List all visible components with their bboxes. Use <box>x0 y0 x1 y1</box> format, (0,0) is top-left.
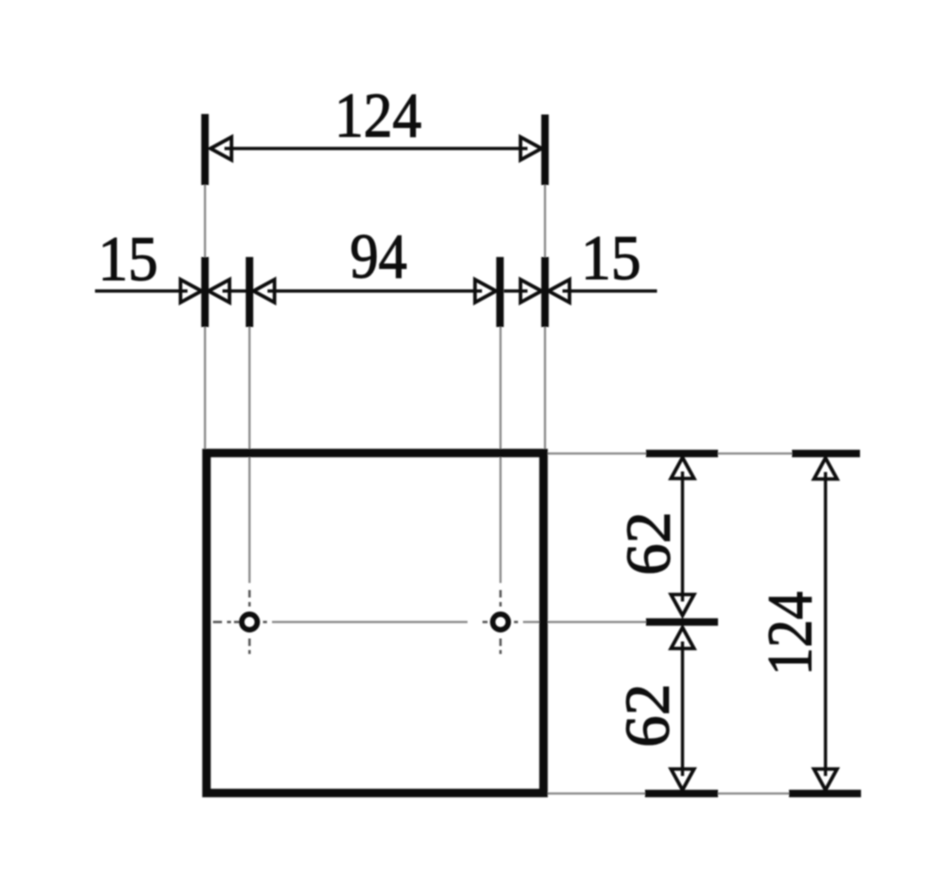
centerline right hole vertical dash below <box>499 639 501 647</box>
centerline right hole vertical dot below <box>499 650 501 654</box>
plate outline square <box>207 453 544 793</box>
dim 124 right: arrowhead up <box>814 458 837 479</box>
centerline left hole vertical dot <box>248 602 250 607</box>
dim 124 right: shaft <box>824 472 827 776</box>
extension line right edge (x=545) lower <box>544 327 546 449</box>
dim 124 top: arrowhead left <box>211 137 232 160</box>
dim 94: arrowhead right at bar3 <box>475 280 496 303</box>
horizontal centerline solid right <box>523 621 646 623</box>
dim 62 lower: arrowhead up <box>671 628 694 649</box>
horizontal centerline dot 4 <box>514 621 518 623</box>
svg-text:62: 62 <box>614 512 684 576</box>
horizontal centerline dot 1 <box>227 621 231 623</box>
dim 15 left: leader line <box>95 289 188 292</box>
dim 62 upper: shaft <box>681 472 684 602</box>
hole left <box>242 614 258 630</box>
dim 15 right: short line bar3-bar4 <box>504 289 528 292</box>
horizontal centerline solid mid <box>272 621 468 623</box>
centerline left hole vertical dash <box>248 590 250 598</box>
horizontal centerline dot 2 <box>263 621 267 623</box>
dim 62 lower: arrowhead down <box>671 769 694 790</box>
hole right <box>493 614 509 630</box>
dim 62: tick middle <box>646 618 718 626</box>
extension line top edge to right ticks <box>548 452 861 454</box>
svg-text:94: 94 <box>350 222 407 292</box>
svg-text:15: 15 <box>581 223 641 293</box>
dim 124 top: tick left <box>201 114 209 185</box>
dim 94: short line bar1-bar2 <box>223 289 247 292</box>
dim 62 upper: tick top <box>646 450 718 458</box>
dim 124 top: dimension line <box>225 147 528 150</box>
dim row2: tick hole right <box>496 257 504 327</box>
svg-text:124: 124 <box>335 81 422 151</box>
dim 62 upper: arrowhead down <box>671 595 694 616</box>
dim 124 right: tick bottom <box>789 790 861 798</box>
dim 62 lower: tick bottom <box>645 790 718 798</box>
dim 15 right: arrowhead left outside bar4 <box>549 280 570 303</box>
svg-text:62: 62 <box>613 684 683 748</box>
horizontal centerline dash 2 <box>234 621 240 623</box>
extension line right edge (x=545) upper <box>544 185 546 257</box>
dim 15 right: arrowhead right at bar4 <box>521 280 542 303</box>
dim 94: arrowhead left at bar1 <box>209 280 230 303</box>
extension line bottom edge to right ticks <box>548 792 862 794</box>
dim 15 right: leader line <box>563 289 658 292</box>
centerline left hole vertical dash below <box>248 639 250 647</box>
centerline right hole vertical dash <box>499 590 501 598</box>
centerline left hole vertical solid <box>248 327 250 583</box>
dim 15 left: arrowhead right-pointing <box>181 280 202 303</box>
horizontal centerline dot 3 <box>483 621 488 623</box>
dim row2: tick plate right <box>541 257 549 327</box>
extension line left edge (x=205) lower <box>204 327 206 449</box>
svg-text:15: 15 <box>98 224 158 294</box>
centerline right hole vertical dot <box>499 602 501 607</box>
dim 124 right: arrowhead down <box>814 769 837 790</box>
dim 124 top: tick right <box>541 115 549 186</box>
extension line left edge (x=205) upper <box>204 185 206 257</box>
svg-text:124: 124 <box>755 592 825 676</box>
centerline right hole vertical solid <box>499 327 501 583</box>
dim 62 upper: arrowhead up <box>671 458 694 479</box>
dim 94: dimension line <box>268 289 483 292</box>
dim 124 right: tick top <box>792 450 860 458</box>
horizontal centerline dash 1 <box>213 621 222 623</box>
dim row2: tick hole left <box>246 257 254 327</box>
dim 124 top: arrowhead right <box>521 137 542 160</box>
dim 62 lower: shaft <box>681 642 684 777</box>
dim 94: arrowhead left at bar2 <box>254 280 275 303</box>
centerline left hole vertical dot below <box>248 650 250 654</box>
dim row2: tick plate left <box>201 257 209 327</box>
